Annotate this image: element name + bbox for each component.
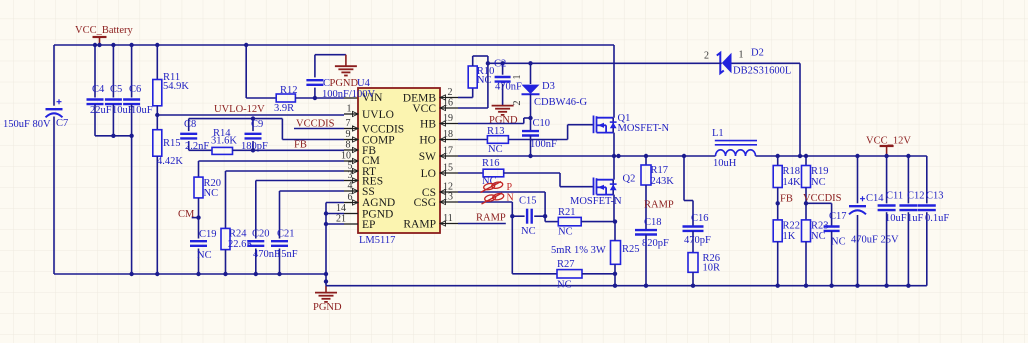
svg-text:R21: R21 (558, 207, 576, 218)
resistor R16 (458, 172, 483, 174)
svg-text:16: 16 (443, 98, 453, 109)
svg-text:NC: NC (558, 227, 573, 238)
svg-text:EP: EP (362, 219, 375, 231)
svg-text:RAMP: RAMP (644, 200, 674, 211)
red marker P (481, 181, 504, 192)
pin 3 RES (344, 180, 358, 182)
svg-text:1K: 1K (783, 231, 796, 242)
svg-text:470uF 25V: 470uF 25V (851, 235, 899, 246)
svg-text:PGND: PGND (330, 78, 359, 89)
wire bottom-left ground rail (54, 273, 326, 275)
svg-text:4.42K: 4.42K (157, 156, 183, 167)
svg-text:17: 17 (443, 146, 453, 157)
svg-text:21: 21 (336, 214, 346, 225)
svg-text:NC: NC (831, 237, 846, 248)
svg-text:14K: 14K (783, 177, 802, 188)
svg-text:820pF: 820pF (642, 238, 669, 249)
svg-text:100nF: 100nF (530, 139, 557, 150)
inductor L1 (715, 140, 757, 142)
svg-text:NC: NC (197, 250, 212, 261)
pin 16 VCC (440, 107, 458, 109)
svg-text:3: 3 (348, 170, 353, 181)
resistor R25 shunt 5mR (611, 241, 621, 265)
svg-text:SW: SW (419, 151, 436, 163)
node UVLO-12V (155, 113, 159, 117)
svg-text:R12: R12 (280, 85, 298, 96)
svg-text:UVLO-12V: UVLO-12V (214, 104, 265, 115)
svg-text:PGND: PGND (489, 115, 518, 126)
resistor R12 (276, 94, 295, 102)
capacitor C20 (247, 240, 264, 242)
power port VCC_12V (886, 146, 888, 156)
capacitor C10 (530, 118, 532, 131)
svg-text:6: 6 (348, 192, 353, 203)
svg-text:1uF: 1uF (907, 213, 924, 224)
svg-text:R24: R24 (229, 229, 247, 240)
wire LO to Q2 gate (504, 172, 560, 174)
svg-text:CSG: CSG (414, 197, 436, 209)
capacitor C11 (884, 154, 888, 158)
svg-text:150uF 80V: 150uF 80V (3, 119, 51, 130)
svg-text:5mR 1% 3W: 5mR 1% 3W (551, 245, 606, 256)
resistor R19 (804, 154, 808, 158)
svg-text:UVLO: UVLO (362, 109, 394, 121)
wire FB row (233, 149, 345, 151)
capacitor C12 (906, 154, 910, 158)
resistor R15 (153, 130, 162, 157)
svg-text:470nF: 470nF (495, 82, 522, 93)
svg-text:C13: C13 (926, 191, 944, 202)
capacitor C7 (53, 45, 55, 106)
capacitor C2 (500, 61, 504, 65)
resistor R23 (802, 220, 811, 242)
svg-text:2: 2 (512, 101, 523, 106)
svg-text:R16: R16 (482, 158, 500, 169)
wire DEMB to R10 (458, 97, 473, 99)
wire HO to Q1 gate (508, 139, 567, 141)
net label CM (192, 217, 199, 219)
pin 8 FB (344, 149, 358, 151)
svg-text:R19: R19 (811, 166, 829, 177)
diode D3 CDBW46-G (528, 61, 532, 65)
svg-text:VCC_Battery: VCC_Battery (75, 25, 133, 36)
capacitor C19 (190, 240, 207, 242)
wire CSG to R27 (511, 216, 513, 274)
capacitor C6 (129, 43, 133, 47)
resistor R21 (558, 217, 581, 225)
wire VOUT row (756, 155, 927, 157)
pin 2 DEMB (440, 97, 458, 99)
pin 9 COMP (344, 139, 358, 141)
net label VCCDIS stub (294, 128, 344, 130)
svg-text:22uF: 22uF (90, 105, 112, 116)
transistor Q2 (613, 156, 615, 180)
svg-text:14: 14 (336, 203, 346, 214)
resistor R13 (458, 139, 487, 141)
svg-text:PGND: PGND (313, 302, 342, 313)
pin 13 CSG (440, 201, 458, 203)
wire EP pin (326, 223, 344, 225)
pin 14 PGND (344, 213, 358, 215)
svg-text:7: 7 (346, 118, 351, 129)
ground PGND at C2 (492, 105, 514, 107)
wire VCC rail (488, 62, 711, 64)
svg-text:VCCDIS: VCCDIS (803, 193, 842, 204)
wire bottom ground rail right (326, 285, 927, 287)
svg-text:AGND: AGND (362, 197, 395, 209)
svg-text:C4: C4 (92, 84, 105, 95)
resistor R17 (644, 154, 648, 158)
svg-text:R17: R17 (651, 165, 669, 176)
svg-text:18: 18 (443, 129, 453, 140)
svg-text:NC: NC (488, 144, 503, 155)
svg-text:NC: NC (557, 280, 572, 291)
svg-text:FB: FB (780, 194, 793, 205)
pin 7 VCCDIS (344, 128, 358, 130)
svg-text:C12: C12 (907, 191, 925, 202)
wire SS to C21 (280, 190, 345, 192)
svg-text:C11: C11 (886, 191, 903, 202)
svg-text:2: 2 (448, 87, 453, 98)
svg-text:LM5117: LM5117 (359, 235, 395, 246)
svg-text:R22: R22 (783, 221, 801, 232)
svg-text:470pF: 470pF (684, 235, 711, 246)
wire HB to C10 node (458, 123, 524, 125)
svg-text:C15: C15 (519, 196, 537, 207)
pin 17 SW (440, 155, 458, 157)
svg-text:C2: C2 (494, 59, 506, 70)
svg-text:243K: 243K (651, 176, 675, 187)
svg-text:D3: D3 (542, 81, 555, 92)
wire SW row (458, 155, 716, 157)
wire Q2 source down (613, 195, 615, 222)
svg-text:C18: C18 (644, 217, 662, 228)
svg-text:1: 1 (347, 104, 352, 115)
svg-text:MOSFET-N: MOSFET-N (618, 123, 670, 134)
svg-text:3.9R: 3.9R (274, 103, 294, 114)
wire AGND to ground (326, 202, 344, 204)
svg-text:C8: C8 (184, 119, 196, 130)
svg-text:Q2: Q2 (623, 174, 636, 185)
wire VIN down to Q1 (613, 45, 615, 118)
svg-text:HO: HO (419, 135, 436, 147)
capacitor C21 (271, 240, 288, 242)
resistor R26 (688, 253, 698, 273)
wire D2 to VOUT (799, 63, 801, 156)
pin 15 LO (440, 172, 458, 174)
resistor R27 (557, 270, 582, 278)
svg-text:VCC: VCC (412, 103, 436, 115)
op-amp U1 LM5117 IC body U4 (358, 88, 440, 233)
svg-text:C16: C16 (691, 213, 709, 224)
svg-text:LO: LO (421, 168, 436, 180)
svg-text:R13: R13 (487, 126, 505, 137)
wire snubber branch (682, 154, 686, 158)
pin 19 HB (440, 123, 458, 125)
resistor R14 (189, 149, 212, 151)
capacitor C4 (93, 43, 97, 47)
wire RT to R24 (226, 170, 345, 172)
capacitor C14 (855, 154, 859, 158)
svg-text:R27: R27 (557, 259, 575, 270)
ground PGND at C3 (345, 55, 347, 66)
svg-text:9: 9 (346, 129, 351, 140)
pin 6 AGND (344, 202, 358, 204)
capacitor C17 (806, 202, 832, 204)
pin 18 HO (440, 139, 458, 141)
capacitor C13 (926, 156, 928, 203)
svg-text:4: 4 (348, 181, 353, 192)
transistor Q1 (594, 116, 614, 134)
svg-text:C9: C9 (251, 119, 263, 130)
net label FB right (777, 188, 779, 220)
wire CS path (458, 191, 545, 193)
power port VCC_Battery (99, 37, 101, 45)
svg-text:NC: NC (811, 231, 826, 242)
svg-text:R15: R15 (163, 138, 181, 149)
pin 11 RAMP (440, 223, 458, 225)
svg-text:C10: C10 (533, 118, 551, 129)
svg-text:15: 15 (443, 163, 453, 174)
svg-text:C6: C6 (129, 84, 141, 95)
pin 12 CS (440, 191, 458, 193)
wire R27 to shunt node (582, 273, 615, 275)
svg-text:10uH: 10uH (713, 158, 737, 169)
svg-text:NC: NC (477, 75, 492, 86)
svg-text:10uF: 10uF (885, 213, 907, 224)
diode D2 DB2S31600L (722, 53, 732, 73)
resistor R22 (773, 220, 782, 242)
svg-text:15nF: 15nF (276, 249, 298, 260)
wire cap bottoms (95, 135, 132, 137)
svg-text:VCCDIS: VCCDIS (296, 119, 335, 130)
svg-text:54.9K: 54.9K (163, 81, 189, 92)
svg-text:C14: C14 (866, 193, 884, 204)
svg-text:C17: C17 (829, 211, 847, 222)
svg-text:DB2S31600L: DB2S31600L (733, 66, 791, 77)
resistor R20 (194, 177, 203, 198)
capacitor C16 (683, 225, 704, 227)
svg-text:NC: NC (204, 188, 219, 199)
svg-text:CM: CM (178, 209, 195, 220)
wire PGND pin (326, 213, 344, 215)
capacitor C18 (645, 210, 647, 230)
wire VIN branch with R12 (244, 43, 248, 47)
svg-text:13: 13 (443, 192, 453, 203)
svg-text:D2: D2 (751, 48, 764, 59)
resistor R24 (221, 228, 230, 249)
svg-text:1: 1 (512, 75, 523, 80)
wire R21 to shunt node (581, 221, 615, 223)
svg-text:C7: C7 (56, 118, 68, 129)
svg-text:P: P (507, 182, 513, 193)
svg-text:0.1uF: 0.1uF (925, 213, 949, 224)
svg-text:C5: C5 (110, 84, 122, 95)
wire CS to R21 (544, 216, 546, 221)
capacitor C5 (111, 43, 115, 47)
svg-text:8: 8 (346, 140, 351, 151)
svg-text:HB: HB (420, 119, 436, 131)
svg-text:RAMP: RAMP (476, 213, 506, 224)
svg-text:VCC_12V: VCC_12V (866, 136, 911, 147)
resistor R18 (776, 154, 780, 158)
capacitor C8 (188, 119, 190, 132)
pin 10 CM (344, 160, 358, 162)
capacitor C9 (252, 119, 254, 132)
pin 21 EP (344, 223, 358, 225)
svg-text:NC: NC (521, 226, 536, 237)
pin 1 UVLO (344, 113, 358, 115)
pin 4 SS (344, 190, 358, 192)
resistor R10 (468, 66, 477, 88)
ground PGND bottom (324, 279, 328, 283)
wire caps to ground rail (131, 136, 133, 274)
svg-text:CDBW46-G: CDBW46-G (534, 97, 587, 108)
svg-text:NC: NC (811, 177, 826, 188)
net label VCCDIS right (805, 188, 807, 220)
capacitor C3 100nF/100V (313, 96, 317, 100)
red marker N (482, 193, 505, 204)
pin 5 RT (344, 170, 358, 172)
svg-text:RAMP: RAMP (403, 219, 436, 231)
wire CSG path (458, 201, 512, 203)
svg-text:19: 19 (443, 113, 453, 124)
svg-text:N: N (507, 193, 514, 204)
wire Q1 source to SW (613, 133, 615, 156)
svg-text:11: 11 (443, 213, 453, 224)
svg-text:FB: FB (294, 140, 307, 151)
svg-text:10uF: 10uF (131, 105, 153, 116)
svg-text:100nF/100V: 100nF/100V (322, 89, 376, 100)
wire top VCC_Battery rail (54, 44, 614, 46)
svg-text:L1: L1 (712, 128, 724, 139)
svg-text:C21: C21 (277, 229, 295, 240)
svg-text:1: 1 (739, 50, 744, 61)
svg-text:C19: C19 (199, 229, 217, 240)
svg-text:10R: 10R (703, 263, 721, 274)
wire RES to C20 (256, 180, 344, 182)
resistor R11 (155, 43, 159, 47)
svg-text:C20: C20 (252, 229, 270, 240)
svg-text:2: 2 (704, 51, 709, 62)
wire CM to R20 (199, 160, 345, 162)
net label RAMP stub (458, 223, 506, 225)
compensation COMP line (189, 118, 283, 120)
wire VCC pin to VCC rail (458, 107, 488, 109)
svg-text:R18: R18 (783, 166, 801, 177)
capacitor C15 (512, 215, 524, 217)
svg-text:31.6K: 31.6K (211, 135, 237, 146)
svg-text:R25: R25 (622, 244, 640, 255)
pin VIN stub (344, 97, 358, 99)
